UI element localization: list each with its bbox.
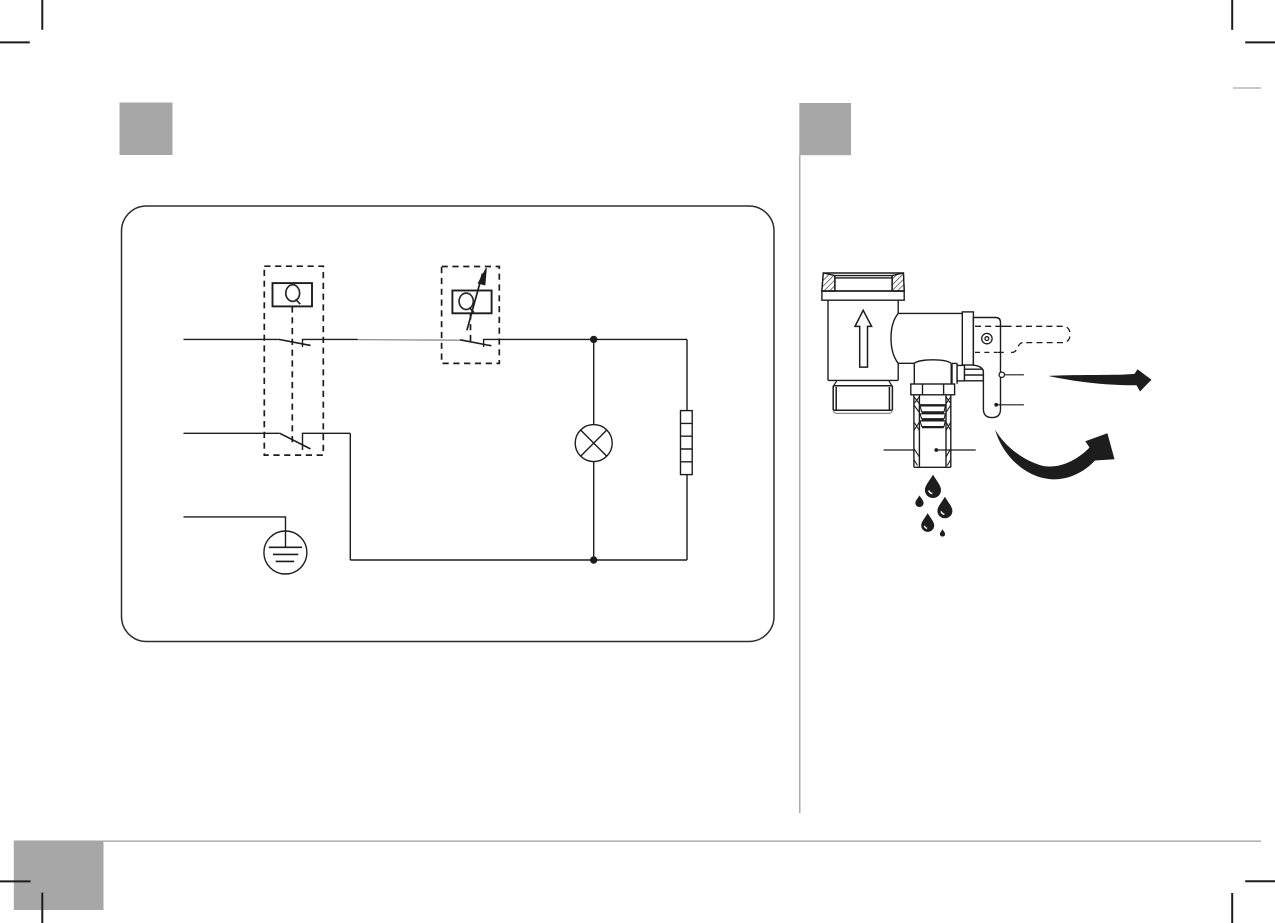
valve inlet opening: [835, 276, 892, 291]
crop mark bottom-left horizontal: [0, 880, 31, 882]
footer gray block: [14, 841, 104, 910]
thermostat Q2 fixed contact: [484, 339, 594, 347]
valve body flow arrow: [855, 310, 872, 367]
ground bar middle: [273, 553, 298, 555]
drain hex nut: [911, 384, 955, 395]
crop mark bottom-left vertical: [41, 893, 43, 923]
wire bottom bus: [350, 559, 687, 561]
switch Q1 label letter Q: [286, 285, 300, 304]
faint page-edge line top right: [1233, 87, 1261, 89]
water drop small left: [915, 495, 923, 507]
stem housing: [965, 369, 984, 381]
wire L1 middle segment: [358, 339, 460, 342]
ground bar short: [276, 560, 295, 562]
tee horizontal cylinder: [898, 313, 962, 363]
crop mark bottom-right vertical: [1231, 893, 1233, 923]
section marker square left page: [120, 103, 173, 156]
wire L1 to right branch: [594, 338, 687, 340]
lamp indicator: [575, 425, 612, 462]
thermostat Q2 label box: [452, 291, 491, 314]
node bottom junction: [590, 556, 597, 563]
switch Q1 mechanical link (dashed): [291, 306, 293, 443]
crop mark top-right horizontal: [1245, 41, 1275, 43]
gland flange band: [962, 312, 973, 365]
valve inlet female fitting outline: [822, 273, 904, 291]
drain pipe thread bands: [919, 404, 946, 406]
drain neck walls: [914, 363, 951, 384]
ground protective earth circle: [264, 531, 307, 574]
diagram frame: [122, 206, 775, 642]
heating element: [681, 411, 693, 475]
wire L2 down segment: [349, 433, 351, 560]
thermostat Q2 blade: [460, 340, 491, 346]
switch Q1 label box: [273, 283, 313, 306]
switch Q1 pole 1 fixed contact: [303, 339, 358, 347]
crop mark top-right vertical: [1231, 0, 1233, 30]
wire L2 left lead: [184, 432, 280, 434]
ground bar long: [269, 546, 302, 548]
footer rule: [14, 840, 1261, 842]
lever head plate and handle: [973, 318, 1000, 418]
drain neck dome: [914, 360, 951, 363]
water drop lower middle: [921, 513, 934, 532]
lever lift curved arrow: [995, 430, 1115, 480]
heating element branch lower wire: [686, 475, 688, 560]
stem side band: [952, 363, 957, 383]
drain pipe walls: [914, 395, 951, 468]
water drop right: [937, 497, 952, 519]
raised lever dashed outline: [975, 326, 1070, 352]
callout line drain left: [884, 449, 914, 451]
callout line lever with dot: [998, 404, 1024, 406]
lamp branch lower wire: [593, 462, 595, 560]
valve inlet hatched band right: [892, 273, 904, 291]
heating element branch upper wire: [686, 339, 688, 410]
drain pipe wall hatch ticks: [914, 397, 951, 466]
thermostat Q2 dashed enclosure: [442, 267, 500, 364]
thermostat Q2 link (dashed): [470, 313, 472, 343]
node top junction: [590, 336, 597, 343]
valve body: [828, 300, 898, 380]
flow direction arrow straight: [1049, 369, 1152, 391]
valve inlet flange: [822, 291, 904, 300]
switch Q1 dashed enclosure: [264, 266, 323, 455]
valve inlet hatched band left: [822, 273, 835, 291]
callout line stem: [1005, 374, 1024, 376]
stem square nut: [957, 365, 964, 381]
tee left fillet arc: [891, 313, 898, 363]
switch Q1 pole 2 fixed contact: [303, 433, 351, 450]
switch Q1 pole 1 blade: [279, 339, 311, 345]
page divider vertical rule: [799, 155, 801, 813]
water drop large: [925, 475, 941, 498]
crop mark top-left horizontal: [0, 41, 30, 43]
section marker square right page: [799, 103, 851, 155]
valve outlet male thread: [833, 386, 892, 411]
lamp branch upper wire: [593, 339, 595, 424]
switch Q1 pole 2 blade: [280, 433, 311, 449]
raised lever solid ticks: [997, 326, 1006, 352]
wire PE lead: [184, 517, 286, 547]
thermostat Q2 label letter Q: [459, 293, 474, 312]
water drop tiny: [940, 529, 945, 536]
crop mark top-left vertical: [41, 0, 43, 30]
lever pivot screw: [982, 333, 992, 343]
crop mark bottom-right horizontal: [1245, 880, 1275, 882]
thermostat Q2 adjustment arrow: [467, 274, 483, 331]
callout line drain right with dot: [938, 449, 976, 451]
wire L1 left lead: [184, 338, 279, 340]
stem end circle: [999, 372, 1004, 377]
